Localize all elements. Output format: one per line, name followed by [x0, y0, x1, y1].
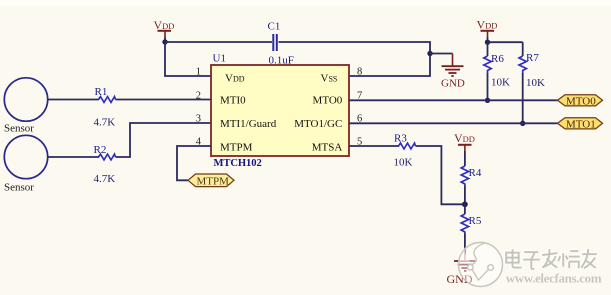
svg-text:VDD: VDD: [454, 131, 475, 145]
svg-text:R5: R5: [469, 215, 482, 227]
wire VDD stem to junction: [164, 37, 166, 42]
power port VDD (above R6/R7): [477, 18, 498, 38]
svg-text:R6: R6: [491, 53, 504, 65]
svg-text:MTPM: MTPM: [220, 142, 253, 154]
svg-text:MTCH102: MTCH102: [214, 158, 262, 169]
resistor R7: [519, 56, 526, 73]
wire R3 to R4/R5 node: [416, 146, 465, 204]
svg-text:2: 2: [196, 91, 201, 102]
power port VDD (top left): [154, 18, 175, 37]
wire R6 to pin7 net: [487, 73, 489, 100]
junction dot at VDD: [162, 39, 167, 44]
resistor R2: [99, 154, 116, 160]
wire R4 to node: [464, 186, 466, 204]
svg-text:MTO0: MTO0: [566, 96, 596, 108]
wire R5 to GND: [464, 234, 466, 253]
port MTPM: [188, 174, 234, 188]
sensor circle 1: [4, 78, 47, 121]
svg-text:R4: R4: [469, 167, 482, 179]
svg-text:10K: 10K: [394, 157, 413, 169]
capacitor C1: [268, 21, 294, 67]
svg-text:Sensor: Sensor: [4, 123, 34, 135]
svg-text:MTI1/Guard: MTI1/Guard: [220, 118, 277, 130]
svg-text:10K: 10K: [491, 77, 510, 89]
svg-text:www.elecfans.com: www.elecfans.com: [506, 271, 602, 286]
resistor R5: [461, 214, 468, 234]
wire node to R5: [464, 204, 466, 214]
svg-text:8: 8: [357, 67, 362, 78]
junction dot R6/MTO0: [485, 98, 490, 103]
wire pin6 to MTO1: [349, 122, 558, 124]
wire VDD2 down to R6: [487, 42, 489, 56]
svg-text:GND: GND: [441, 78, 465, 90]
svg-text:R1: R1: [95, 86, 108, 98]
svg-text:Sensor: Sensor: [4, 182, 34, 194]
wire VDD junction right to C1: [165, 41, 272, 43]
port MTO0: [558, 95, 603, 108]
wire sensor2 to R2: [48, 156, 99, 158]
wire pin4 to MTPM port: [177, 146, 211, 180]
junction dot on pin8 riser: [427, 51, 432, 56]
svg-text:C1: C1: [268, 21, 281, 33]
port MTO1: [558, 118, 603, 131]
watermark logo elecfans: [458, 243, 502, 287]
wire across to R7: [488, 41, 523, 43]
svg-text:VDD: VDD: [477, 18, 498, 32]
resistor R1: [99, 97, 116, 103]
wire R7 down from top: [522, 42, 524, 56]
svg-text:MTO0: MTO0: [313, 95, 343, 107]
power port VDD (above R4): [454, 131, 475, 151]
svg-text:U1: U1: [213, 53, 226, 65]
wire VDD3 to R4: [464, 151, 466, 166]
svg-text:R7: R7: [526, 52, 539, 64]
wire VDD junction down to pin1: [165, 42, 211, 76]
wire R1 to U1 pin2: [116, 99, 212, 101]
wire pin7 to MTO0: [349, 99, 558, 101]
svg-text:MTO1/GC: MTO1/GC: [294, 118, 342, 130]
wire pin5 to R3: [349, 145, 399, 147]
svg-text:4.7K: 4.7K: [94, 173, 116, 185]
svg-text:1: 1: [196, 67, 201, 78]
svg-text:3: 3: [196, 114, 201, 125]
svg-text:10K: 10K: [526, 77, 545, 89]
IC U1 MTCH102: [211, 65, 349, 156]
svg-text:VSS: VSS: [321, 73, 338, 85]
svg-text:MTPM: MTPM: [197, 176, 230, 188]
svg-text:R3: R3: [394, 132, 407, 144]
sensor circle 2: [4, 135, 47, 178]
wire VDD2 to junction: [487, 37, 489, 42]
svg-text:4.7K: 4.7K: [94, 117, 116, 129]
ground GND (bottom): [447, 249, 477, 286]
wire R7 to pin6 net: [522, 73, 524, 123]
resistor R4: [461, 166, 468, 186]
wire R2 up to U1 pin3: [116, 123, 212, 157]
junction dot R7/MTO1: [520, 121, 525, 126]
svg-text:MTO1: MTO1: [566, 119, 596, 131]
wire C1 to corner and down to pin8: [279, 42, 431, 76]
junction dot VDD2: [485, 40, 490, 45]
ground GND (top): [441, 54, 465, 90]
wire sensor1 to R1: [48, 99, 99, 101]
svg-text:R2: R2: [94, 144, 107, 156]
svg-text:VDD: VDD: [225, 73, 245, 85]
junction dot R4/R5: [462, 201, 468, 207]
wire junction to GND: [430, 53, 453, 55]
svg-text:MTSA: MTSA: [312, 142, 343, 154]
resistor R6: [484, 56, 491, 73]
svg-text:MTI0: MTI0: [220, 95, 246, 107]
resistor R3: [399, 143, 416, 149]
